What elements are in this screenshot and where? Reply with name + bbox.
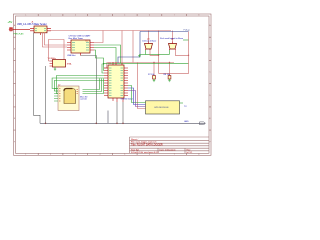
- wire green U2 to MCU: [94, 45, 121, 73]
- transistor Q1: [145, 42, 153, 51]
- resistor R8: [168, 76, 171, 80]
- svg-text:2: 2: [50, 15, 51, 17]
- sheet border frame: [14, 14, 212, 155]
- svg-text:F: F: [14, 141, 15, 143]
- wire Q emitters green: [140, 50, 170, 54]
- wire USB D+ to U2: [43, 33, 68, 47]
- svg-text:7: 7: [174, 15, 175, 17]
- junction dots: [103, 63, 105, 65]
- svg-text:PWR_FLAG: PWR_FLAG: [14, 33, 24, 36]
- wire MCU to U3 green: [128, 86, 146, 103]
- svg-text:6: 6: [149, 15, 150, 17]
- module J2 SD card: [54, 86, 79, 111]
- svg-text:R7 10k: R7 10k: [148, 74, 154, 76]
- svg-text:4: 4: [100, 154, 101, 156]
- svg-text:XTAL: XTAL: [67, 62, 73, 65]
- module U3 GPS: [146, 101, 180, 114]
- wire MCU to U3 purple: [128, 91, 146, 107]
- IC U2 USB-UART: [67, 40, 94, 56]
- svg-text:Crimson 2 Base: Crimson 2 Base: [142, 40, 157, 42]
- svg-text:Title: FLIGHT DATA LOGGER: Title: FLIGHT DATA LOGGER: [131, 143, 163, 146]
- svg-text:Pull-up: Pull-up: [184, 29, 191, 31]
- wire green long rail: [104, 63, 189, 65]
- svg-text:7: 7: [174, 154, 175, 156]
- frame zone labels: [14, 15, 212, 156]
- svg-text:USB Mini: USB Mini: [67, 55, 76, 57]
- wire +5V red horizontal: [51, 31, 173, 74]
- ground R7: [153, 79, 155, 82]
- wire red mid rails: [104, 63, 174, 109]
- svg-text:+5V: +5V: [8, 20, 13, 24]
- crystal Y1: [50, 60, 66, 68]
- wire USB shield down: [34, 33, 46, 124]
- title block: [130, 137, 210, 153]
- GND rail bottom: [40, 102, 205, 123]
- svg-text:Date: 2016-04-11: Date: 2016-04-11: [160, 148, 177, 151]
- svg-text:GND: GND: [184, 121, 189, 123]
- wire green stub U3: [180, 102, 184, 104]
- svg-text:5: 5: [124, 15, 125, 17]
- svg-text:8: 8: [198, 15, 199, 17]
- svg-text:3: 3: [75, 154, 76, 156]
- wire Q collectors red: [150, 32, 189, 74]
- svg-text:4: 4: [100, 15, 101, 17]
- svg-text:card slot: card slot: [80, 98, 87, 101]
- global label arrow GND: [200, 122, 206, 125]
- wire green SPI bus to module: [52, 76, 104, 94]
- svg-text:1: 1: [25, 154, 26, 156]
- svg-text:8: 8: [198, 154, 199, 156]
- wire U2 bottom to GND rail: [81, 56, 97, 124]
- svg-text:Sheet: /: Sheet: /: [131, 138, 139, 141]
- svg-text:Size: A4: Size: A4: [131, 148, 139, 151]
- power flag PWR1: [9, 27, 30, 31]
- wire green stub right: [183, 39, 189, 41]
- MCU U1: [104, 62, 128, 102]
- svg-text:Bus Mini Timer: Bus Mini Timer: [69, 37, 84, 40]
- svg-text:GPS MODULE: GPS MODULE: [154, 107, 169, 109]
- svg-text:1: 1: [25, 15, 26, 17]
- svg-text:6: 6: [149, 154, 150, 156]
- svg-text:N-ch small signal to Slave: N-ch small signal to Slave: [160, 37, 184, 40]
- wire pull-up navy: [118, 32, 189, 64]
- svg-text:5: 5: [124, 154, 125, 156]
- wire MCU to U3 blue: [128, 88, 146, 105]
- resistor R7: [153, 76, 156, 80]
- ground R8: [168, 79, 170, 82]
- ground Q1: [138, 54, 140, 57]
- svg-text:CP2102 USB to UART: CP2102 USB to UART: [69, 35, 92, 38]
- svg-text:USB_A 4-UP1.5 Male Tender: USB_A 4-UP1.5 Male Tender: [17, 23, 47, 26]
- svg-text:F: F: [209, 141, 210, 143]
- svg-text:Id: 1/1: Id: 1/1: [187, 152, 194, 154]
- wire USB D- down: [45, 33, 68, 61]
- svg-text:2: 2: [50, 154, 51, 156]
- svg-text:R8 10k: R8 10k: [164, 74, 170, 76]
- svg-text:KiCad E.D.A. eeschema 4.0.2: KiCad E.D.A. eeschema 4.0.2: [131, 151, 159, 154]
- ground Y1: [54, 67, 56, 71]
- connector J1 USB: [30, 26, 51, 35]
- svg-text:3: 3: [75, 15, 76, 17]
- svg-text:Y1 8MHz: Y1 8MHz: [48, 58, 56, 60]
- transistor Q2: [169, 42, 177, 51]
